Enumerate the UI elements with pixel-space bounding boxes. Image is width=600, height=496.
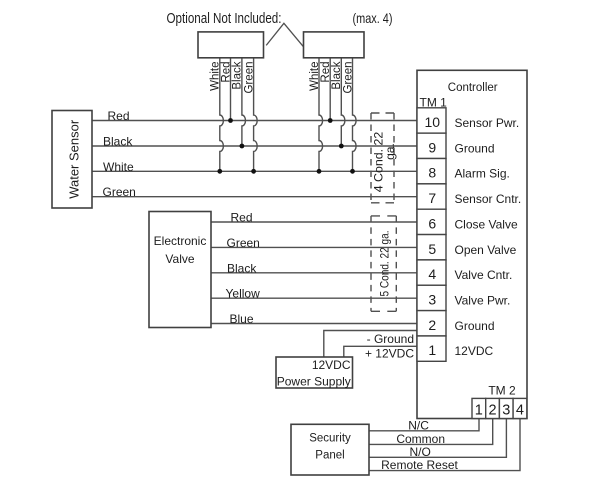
svg-text:Remote Reset: Remote Reset [381,458,458,472]
svg-text:Optional Not Included:: Optional Not Included: [167,10,282,27]
svg-text:10: 10 [425,114,441,130]
svg-text:Alarm Sig.: Alarm Sig. [455,167,510,181]
svg-text:ga.: ga. [383,143,397,160]
svg-text:2: 2 [489,403,497,419]
svg-text:Green: Green [243,62,255,94]
svg-text:Red: Red [220,62,232,83]
svg-text:White: White [309,62,321,91]
svg-text:Power Supply: Power Supply [277,374,351,388]
svg-text:(max. 4): (max. 4) [353,10,393,26]
svg-text:N/O: N/O [410,445,431,459]
svg-text:Sensor Pwr.: Sensor Pwr. [455,116,520,130]
svg-text:- Ground: - Ground [367,332,414,346]
svg-text:6: 6 [428,215,436,231]
svg-text:Red: Red [108,109,130,123]
svg-text:1: 1 [475,403,483,419]
svg-text:Black: Black [331,61,343,89]
svg-text:Black: Black [227,261,257,275]
svg-text:Panel: Panel [315,450,344,462]
svg-text:9: 9 [428,139,436,155]
svg-text:Yellow: Yellow [226,287,261,301]
svg-text:5 Cond. 22 ga.: 5 Cond. 22 ga. [378,231,392,297]
svg-text:Close Valve: Close Valve [455,217,518,231]
svg-text:Ground: Ground [455,319,495,333]
svg-text:TM 2: TM 2 [488,384,516,398]
svg-text:4: 4 [428,266,436,282]
svg-text:Controller: Controller [448,82,498,94]
svg-text:Blue: Blue [230,312,254,326]
svg-text:Black: Black [232,61,244,89]
svg-text:Sensor Cntr.: Sensor Cntr. [455,192,522,206]
svg-text:2: 2 [428,317,436,333]
svg-text:Valve Cntr.: Valve Cntr. [455,268,513,282]
svg-text:Security: Security [309,432,351,444]
svg-text:Water Sensor: Water Sensor [66,119,81,199]
svg-text:TM 1: TM 1 [420,95,448,109]
svg-text:Green: Green [103,185,136,199]
svg-text:Ground: Ground [455,141,495,155]
svg-text:1: 1 [428,342,436,358]
svg-text:12VDC: 12VDC [455,344,494,358]
svg-text:White: White [103,160,134,174]
svg-text:4 Cond. 22: 4 Cond. 22 [371,131,385,192]
svg-text:4: 4 [516,403,524,419]
svg-text:Black: Black [103,135,133,149]
svg-text:Common: Common [396,432,445,446]
svg-text:Valve: Valve [165,252,194,266]
svg-text:Electronic: Electronic [154,234,207,248]
svg-text:3: 3 [428,292,436,308]
svg-text:Green: Green [227,236,260,250]
svg-text:+ 12VDC: + 12VDC [365,346,414,360]
svg-text:Red: Red [231,211,253,225]
svg-text:Valve Pwr.: Valve Pwr. [455,294,511,308]
svg-text:8: 8 [428,165,436,181]
svg-text:N/C: N/C [408,418,429,432]
svg-text:Open Valve: Open Valve [455,243,517,257]
svg-text:3: 3 [502,403,510,419]
svg-text:5: 5 [428,241,436,257]
svg-text:Green: Green [342,62,354,94]
svg-text:12VDC: 12VDC [312,358,351,372]
svg-text:7: 7 [428,190,436,206]
